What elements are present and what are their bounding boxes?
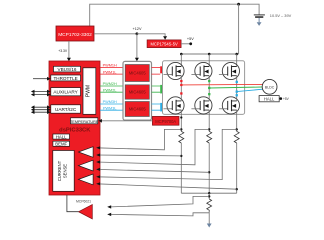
wire: drains up to rail xyxy=(181,54,236,67)
battery BT1 xyxy=(254,15,265,26)
node: ground bus junction xyxy=(208,192,210,194)
MCU port UART/I2C xyxy=(51,105,81,113)
svg-text:MCP6021: MCP6021 xyxy=(76,200,91,204)
wire: MCP6021 output to MCU xyxy=(67,195,79,212)
wire: shunt bottoms to ground bus xyxy=(181,143,236,193)
svg-text:HALL: HALL xyxy=(264,97,275,102)
svg-text:MIC4605: MIC4605 xyxy=(129,90,147,95)
wire: temperature signal to MCU xyxy=(98,119,152,123)
op-amp A2 current sense xyxy=(78,160,93,171)
wire: PWM2H xyxy=(100,85,123,87)
svg-text:VBUS/16: VBUS/16 xyxy=(58,67,77,72)
gate driver bank container xyxy=(123,61,152,120)
wire: battery bus from regulator input to battery xyxy=(90,4,259,26)
wire: dc shunt sense top xyxy=(111,196,209,207)
transistor Q5 low-side phase2 xyxy=(191,97,212,114)
wire: sense row 6 xyxy=(96,184,236,189)
svg-text:10.5V – 39V: 10.5V – 39V xyxy=(270,13,292,18)
wire: UART/I2C bidirectional arrows xyxy=(31,105,51,114)
transistor Q4 low-side phase1 xyxy=(164,97,185,114)
svg-text:CURRENT: CURRENT xyxy=(57,160,62,181)
svg-text:+12V: +12V xyxy=(133,27,142,31)
wire: sense row 2 xyxy=(96,154,181,157)
gate driver U2 MIC4605 xyxy=(125,65,149,82)
svg-text:dsPIC33CK: dsPIC33CK xyxy=(59,127,91,133)
transistor Q6 low-side phase3 xyxy=(219,97,240,114)
wire: bus to dc shunt xyxy=(208,193,210,199)
wire: sense row 4 xyxy=(96,169,209,172)
MCU port HALL xyxy=(53,134,70,139)
wire: phase2 gate pair to bridge xyxy=(152,86,161,92)
wire: PWM1L xyxy=(100,73,123,75)
wire: phase1 midpoint xyxy=(180,76,182,101)
resistor R2 shunt phase2 xyxy=(207,131,212,143)
MCU block CURRENT SENSE xyxy=(53,151,74,192)
wire: phase3 midpoint xyxy=(236,76,238,101)
wire: +12V down to gate drivers xyxy=(136,34,138,58)
node: +5V xyxy=(189,42,192,45)
resistor R3 shunt phase3 xyxy=(234,131,239,143)
wire: +5V output xyxy=(181,43,191,45)
wire: phase3 gate pair to bridge xyxy=(152,104,161,110)
wire: PWM3H xyxy=(100,103,123,105)
svg-text:TEMPERATURE: TEMPERATURE xyxy=(70,120,99,124)
MCU block PWM xyxy=(83,68,96,115)
MCU port TEMPERATURE xyxy=(70,118,99,124)
regulator MCP1702-3302 xyxy=(56,26,94,41)
svg-text:HALL: HALL xyxy=(56,134,67,139)
three-phase bridge container xyxy=(163,61,245,115)
pin: phase2 gate connector xyxy=(160,85,162,94)
svg-text:+5V: +5V xyxy=(187,37,194,41)
gate driver U4 MIC4605 xyxy=(125,102,149,117)
motor M1 BLDC xyxy=(262,79,277,94)
svg-text:AUXILIARY: AUXILIARY xyxy=(53,90,78,95)
MCU port VBUS/16 xyxy=(54,66,81,72)
node: +12V junction xyxy=(136,32,139,35)
svg-text:MCP1702-3302: MCP1702-3302 xyxy=(58,32,92,38)
wire: ground bus xyxy=(181,192,236,194)
wire: sense row 3 xyxy=(96,129,209,164)
MCU port THROTTLE xyxy=(51,75,81,81)
wire: shunt to ground xyxy=(208,212,210,224)
node: below-shunt taps xyxy=(180,155,182,157)
MCU port BEMF xyxy=(53,141,70,146)
wire: PWM2L xyxy=(100,91,123,93)
svg-text:MCP9700A: MCP9700A xyxy=(155,119,176,124)
wire: vbat drop to drain rail xyxy=(238,4,240,54)
wire: dc shunt sense bottom xyxy=(111,213,209,216)
node: hall +5V xyxy=(280,97,283,100)
transistor Q3 high-side phase3 xyxy=(219,62,240,79)
wire: phase2 to motor xyxy=(209,87,262,88)
wire: PWM3L xyxy=(100,109,123,111)
MCU dsPIC33CK block xyxy=(49,61,100,195)
wire: drain rail xyxy=(181,53,238,55)
wire: low-side sources to shunts xyxy=(181,110,236,132)
node: phase3 colored taps xyxy=(236,81,238,97)
pin: phase1 gate connector xyxy=(160,66,162,73)
MCU port AUXILIARY xyxy=(51,88,81,96)
node: drain rail junction phase1 xyxy=(180,53,183,56)
svg-text:BEMF: BEMF xyxy=(55,142,67,147)
svg-text:SENSE: SENSE xyxy=(63,164,68,178)
svg-text:THROTTLE: THROTTLE xyxy=(53,76,77,81)
transistor Q1 high-side phase1 xyxy=(164,62,185,79)
wire: sense row 1 xyxy=(96,129,181,149)
wire: +12V over to 5V regulator xyxy=(137,34,165,37)
wire: phase1 gate pair to bridge xyxy=(152,67,161,74)
wire: sense row 5 xyxy=(96,129,236,179)
pin: phase3 gate connector xyxy=(160,103,162,112)
resistor R4 dc bus shunt xyxy=(207,199,212,212)
svg-text:MIC4605: MIC4605 xyxy=(129,70,147,75)
wire: phase2 midpoint xyxy=(208,76,210,101)
svg-text:+5V: +5V xyxy=(283,97,290,101)
node: drain rail junction phase3 xyxy=(235,53,238,56)
node: drain rail junction phase2 xyxy=(208,53,211,56)
op-amp A1 current sense xyxy=(78,147,93,158)
node: phase2 colored taps xyxy=(208,80,210,95)
wire: throttle input arrow xyxy=(33,77,51,81)
node: bus junction top xyxy=(237,3,240,6)
svg-text:UART/I2C: UART/I2C xyxy=(55,107,77,112)
regulator MCP1754S xyxy=(147,40,181,48)
wire: phase3 to motor xyxy=(237,89,263,91)
wire: +3.3V from regulator to MCU xyxy=(68,41,70,58)
svg-text:BLDC: BLDC xyxy=(265,85,275,89)
svg-text:PWM: PWM xyxy=(85,85,91,97)
gate driver U3 MIC4605 xyxy=(125,85,149,99)
svg-text:+3.3V: +3.3V xyxy=(58,49,68,53)
hall sensor block xyxy=(259,96,279,102)
node: dc shunt top xyxy=(208,195,210,197)
wire: auxiliary bidirectional arrows xyxy=(31,90,51,97)
transistor Q2 high-side phase2 xyxy=(191,62,212,79)
wire: +12V line from regulator xyxy=(94,33,137,35)
op-amp A3 current sense xyxy=(78,174,93,185)
op-amp U5 MCP6021 xyxy=(79,205,93,219)
svg-text:MIC4605: MIC4605 xyxy=(129,107,147,112)
resistor R1 shunt phase1 xyxy=(179,131,184,143)
wire: PWM1H xyxy=(100,66,123,68)
node: phase1 source exit xyxy=(180,116,182,118)
svg-text:MCP1754S-5V: MCP1754S-5V xyxy=(150,42,178,47)
wire: phase1 to motor xyxy=(181,83,262,86)
node: shunt top taps xyxy=(180,128,182,130)
ground xyxy=(207,224,212,228)
temperature sensor MCP9700A xyxy=(152,116,179,125)
node: phase1 colored taps xyxy=(180,80,182,95)
